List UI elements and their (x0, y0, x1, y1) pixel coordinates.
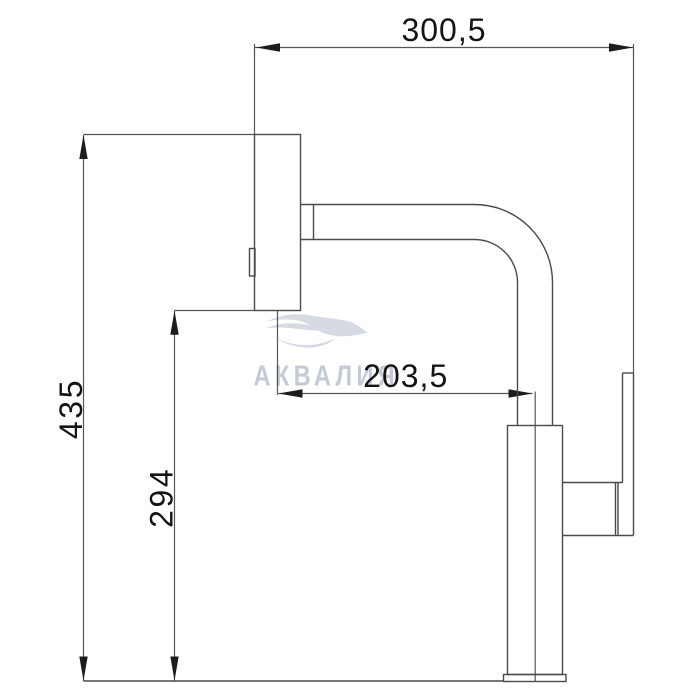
dim 300,5 left extension (up from bracket) (254, 44, 256, 135)
dimension lines (drawn under object) (84, 44, 634, 681)
dim 300,5 line (255, 47, 634, 49)
dim 294 top extension (175, 310, 255, 312)
dim 203,5 line (279, 393, 533, 395)
vertical pipe left edge (517, 283, 519, 426)
spout top edge (301, 204, 475, 206)
handle connector top (563, 482, 623, 484)
svg-text:300,5: 300,5 (401, 12, 486, 48)
dim 203,5 left extension (277, 311, 279, 396)
bracket notch (250, 249, 256, 277)
arrow 203,5 right (509, 389, 533, 397)
connector joint line b (617, 483, 619, 536)
faucet body (508, 426, 563, 675)
counter line (84, 680, 505, 682)
arrow 300,5 right (609, 43, 633, 51)
arrow 435 top (79, 135, 87, 159)
middle-left ribbon (267, 323, 327, 330)
spout bottom edge (301, 239, 475, 241)
arrow 294 bottom (170, 657, 178, 681)
svg-text:294: 294 (143, 467, 179, 528)
arrow 203,5 left (279, 389, 303, 397)
lever top cap (623, 372, 634, 374)
arrow 294 top (170, 311, 178, 335)
svg-text:203,5: 203,5 (363, 358, 448, 394)
base plate (504, 675, 567, 682)
bend outer arc (475, 205, 553, 283)
dim 435 top extension (84, 134, 255, 136)
handle connector bottom (563, 535, 634, 537)
vertical pipe right edge (552, 283, 554, 426)
arrow 435 bottom (79, 657, 87, 681)
watermark wave logo (266, 314, 367, 347)
wall bracket (255, 135, 301, 311)
spout joint line (313, 205, 315, 240)
connector joint line a (615, 483, 617, 536)
dimension texts (53, 12, 487, 528)
top wave ribbon with right swoosh tail (266, 314, 367, 336)
dim 294 line (174, 311, 176, 681)
lever right edge (633, 373, 635, 536)
dim 300,5 right extension (down to lever) (633, 44, 635, 373)
arrow 300,5 left (256, 43, 280, 51)
dim 203,5 right extension / body centerline (534, 392, 536, 682)
arrowheads (79, 43, 633, 680)
bend inner arc (475, 240, 518, 283)
dim 435 line (83, 135, 85, 681)
faucet object outlines (84, 135, 634, 682)
bottom ribbon (268, 333, 336, 348)
svg-text:435: 435 (53, 378, 89, 439)
lever left edge (622, 373, 624, 483)
